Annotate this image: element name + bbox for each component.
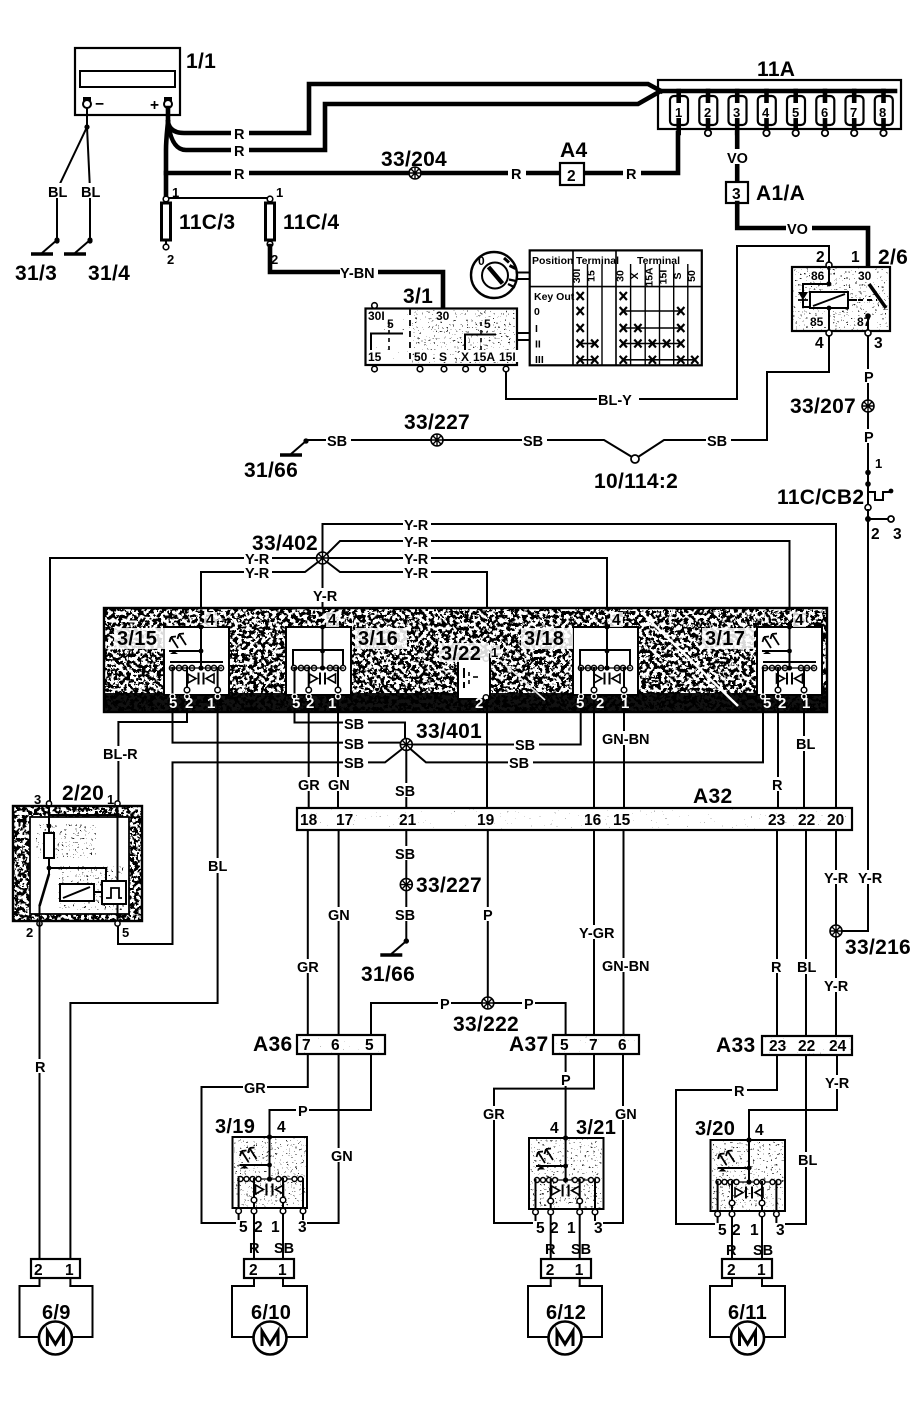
- label 3/15: [114, 628, 166, 650]
- svg-text:3/17: 3/17: [705, 628, 745, 650]
- svg-text:R: R: [234, 127, 245, 143]
- splice 33/402: [317, 552, 329, 564]
- svg-text:5: 5: [387, 317, 394, 331]
- svg-text:1: 1: [65, 1262, 74, 1279]
- wire P 33/207 to circuit breaker: [867, 412, 869, 470]
- svg-text:Key Out: Key Out: [534, 291, 575, 303]
- wire label GN: [330, 1148, 355, 1165]
- fuse 4: [758, 91, 776, 136]
- connector of 6/12: [541, 1259, 591, 1286]
- svg-text:Terminal: Terminal: [576, 255, 619, 267]
- wire label GN: [614, 1106, 639, 1123]
- svg-text:GR: GR: [297, 960, 319, 976]
- wire label P: [862, 369, 875, 386]
- wire Y-R A32 pin20 to 33/216: [835, 830, 837, 925]
- wire SB A32 pin21 to ground 31/66: [405, 830, 407, 878]
- svg-text:R: R: [771, 960, 782, 976]
- svg-text:33/204: 33/204: [381, 148, 447, 171]
- wire label SB: [394, 783, 419, 800]
- svg-text:86: 86: [811, 269, 825, 283]
- svg-text:II: II: [535, 339, 541, 351]
- wire label Y-GR: [578, 925, 616, 942]
- wire R 3/17 pin2 to A32 pin23: [777, 712, 779, 808]
- window motor 6/10: [232, 1286, 307, 1355]
- wire label VO: [786, 221, 812, 238]
- wire R 3/20 pin2 to 6/11: [731, 1217, 733, 1259]
- svg-text:1: 1: [575, 1262, 584, 1279]
- wire label SB: [706, 433, 731, 450]
- label 3/22: [439, 643, 489, 665]
- svg-text:I: I: [535, 323, 538, 335]
- svg-text:5: 5: [365, 1037, 374, 1054]
- svg-text:SB: SB: [274, 1241, 294, 1257]
- svg-text:R: R: [511, 167, 522, 183]
- svg-text:2: 2: [185, 695, 193, 712]
- svg-text:SB: SB: [344, 717, 364, 733]
- svg-text:5: 5: [122, 925, 129, 940]
- wire R 3/19 pin2 to 6/10: [253, 1214, 255, 1259]
- svg-text:P: P: [561, 1073, 571, 1089]
- svg-text:SB: SB: [707, 434, 727, 450]
- svg-text:A1/A: A1/A: [756, 182, 805, 205]
- svg-text:Y-R: Y-R: [824, 979, 849, 995]
- wire GN A32 pin17 to A36 pin6: [338, 830, 340, 1035]
- wire VO A1/A to relay 2/6: [737, 203, 868, 266]
- wire battery minus to grounds: [48, 108, 103, 240]
- svg-text:R: R: [626, 167, 637, 183]
- svg-text:1: 1: [567, 1220, 576, 1237]
- wire SB 33/401 to 3/17 pin5: [411, 712, 764, 762]
- svg-text:5: 5: [292, 695, 300, 712]
- svg-text:33/216: 33/216: [845, 936, 911, 959]
- wire label GN-BN: [601, 958, 650, 975]
- svg-text:30: 30: [858, 269, 872, 283]
- svg-text:5: 5: [763, 695, 771, 712]
- svg-text:4: 4: [795, 612, 804, 629]
- svg-text:3/15: 3/15: [117, 628, 157, 650]
- svg-text:Y-R: Y-R: [825, 1076, 850, 1092]
- wire label BL: [795, 736, 818, 753]
- pin label 4 of 3/15: [204, 612, 217, 629]
- wire label Y-R: [824, 1075, 851, 1092]
- svg-text:SB: SB: [571, 1242, 591, 1258]
- svg-text:P: P: [524, 997, 534, 1013]
- splice 33/222: [482, 997, 494, 1009]
- svg-text:R: R: [545, 1242, 556, 1258]
- svg-text:7: 7: [850, 105, 857, 120]
- svg-text:7: 7: [589, 1037, 598, 1054]
- svg-text:GN: GN: [615, 1107, 637, 1123]
- wire label SB: [522, 433, 547, 450]
- master switch 2/20: [13, 801, 142, 926]
- fuse 2: [699, 91, 717, 136]
- wire SB 3/16 pin5 to 33/401: [295, 712, 406, 739]
- svg-text:6/9: 6/9: [42, 1302, 71, 1324]
- svg-text:1: 1: [750, 1222, 759, 1239]
- svg-text:SB: SB: [395, 908, 415, 924]
- svg-text:GN: GN: [331, 1149, 353, 1165]
- svg-text:15I: 15I: [499, 350, 516, 364]
- fuse 7: [846, 91, 864, 136]
- wire label Y-R: [312, 588, 340, 605]
- wire Y-R 33/402 left to 2/20 pin3: [50, 558, 317, 806]
- svg-text:Y-R: Y-R: [404, 566, 429, 582]
- svg-text:2: 2: [816, 249, 825, 266]
- svg-text:X: X: [461, 350, 469, 364]
- wire Y-R 33/402 to 3/22 pin1: [327, 562, 487, 654]
- svg-text:4: 4: [815, 335, 824, 352]
- fuse 3: [729, 91, 747, 133]
- svg-text:GR: GR: [244, 1081, 266, 1097]
- splice 33/227 lower: [400, 879, 412, 891]
- electronic module 3/22: [458, 656, 490, 701]
- svg-text:3/22: 3/22: [441, 643, 481, 665]
- svg-text:2: 2: [306, 695, 314, 712]
- svg-text:P: P: [298, 1104, 308, 1120]
- wire label P: [522, 996, 535, 1013]
- wire label Y-R right vertical above A32: [823, 870, 850, 887]
- wire Y-GR 3/18 pin2 to A32 pin16: [593, 712, 595, 808]
- fuse 1: [670, 91, 688, 133]
- svg-text:BL-R: BL-R: [103, 747, 138, 763]
- svg-text:R: R: [726, 1243, 737, 1259]
- svg-text:3: 3: [594, 1220, 603, 1237]
- pin label 4 of 3/18: [610, 612, 623, 629]
- wire GR A32 pin18 to A36 pin7: [307, 830, 309, 1035]
- wire label P: [438, 996, 451, 1013]
- svg-text:A33: A33: [716, 1034, 755, 1057]
- svg-text:2: 2: [778, 695, 786, 712]
- svg-text:SB: SB: [327, 434, 347, 450]
- splice 33/204: [409, 167, 421, 179]
- wire GR 3/16 pin2 to A32 pin18: [308, 712, 310, 808]
- svg-text:11A: 11A: [757, 58, 795, 81]
- wire R A33 pin23 to 3/20 pin5: [676, 1055, 777, 1224]
- svg-text:1: 1: [875, 456, 882, 471]
- window motor 6/9: [20, 1286, 93, 1355]
- wire Y-R breaker pin2 down to 33/216: [842, 522, 868, 931]
- svg-text:20: 20: [827, 812, 844, 829]
- svg-text:R: R: [234, 144, 245, 160]
- svg-text:P: P: [483, 908, 493, 924]
- wire label GN-BN: [601, 731, 650, 748]
- svg-text:15: 15: [368, 350, 382, 364]
- svg-text:31/66: 31/66: [244, 459, 298, 482]
- wire label R: [231, 126, 249, 143]
- svg-text:GR: GR: [483, 1107, 505, 1123]
- svg-text:R: R: [772, 778, 783, 794]
- svg-text:SB: SB: [753, 1243, 773, 1259]
- fuse 5: [787, 91, 805, 136]
- wire label SB: [343, 736, 368, 753]
- window switch 3/19: [233, 1134, 308, 1213]
- svg-text:5: 5: [536, 1220, 545, 1237]
- svg-text:III: III: [535, 354, 544, 366]
- wire label BL: [797, 1152, 820, 1169]
- svg-text:85: 85: [810, 315, 824, 329]
- svg-text:A32: A32: [693, 785, 732, 808]
- ground 31/4: [64, 237, 93, 254]
- ground 31/66 upper: [280, 438, 309, 455]
- wire label BL: [207, 858, 230, 875]
- svg-text:3: 3: [874, 335, 883, 352]
- svg-text:2: 2: [567, 168, 576, 185]
- svg-text:GN: GN: [328, 778, 350, 794]
- svg-text:GR: GR: [298, 778, 320, 794]
- wire R to 33/204 and A4: [166, 133, 678, 173]
- svg-text:VO: VO: [727, 151, 748, 167]
- svg-text:S: S: [439, 350, 447, 364]
- svg-text:2: 2: [596, 695, 604, 712]
- wire label SB: [326, 433, 351, 450]
- svg-text:1/1: 1/1: [186, 50, 216, 73]
- svg-text:BL: BL: [81, 185, 100, 201]
- pin labels 5 2 1 3 of 3/20: [715, 1222, 785, 1239]
- svg-text:1: 1: [491, 645, 498, 660]
- wire BL-R 3/15 pin2 to 2/20 pin1: [118, 712, 187, 806]
- svg-text:4: 4: [550, 1120, 559, 1137]
- window motor 6/12: [528, 1286, 602, 1355]
- svg-text:3: 3: [732, 186, 741, 203]
- svg-text:16: 16: [584, 812, 602, 829]
- svg-text:30: 30: [436, 309, 450, 323]
- wire label BL-R: [102, 746, 138, 763]
- svg-text:BL: BL: [797, 960, 816, 976]
- svg-text:GN: GN: [328, 908, 350, 924]
- svg-text:GN-BN: GN-BN: [602, 959, 650, 975]
- svg-text:X: X: [629, 272, 641, 279]
- svg-text:1: 1: [276, 185, 283, 200]
- svg-text:BL: BL: [796, 737, 815, 753]
- svg-text:Y-R: Y-R: [858, 871, 883, 887]
- wire label R: [770, 777, 785, 794]
- wire label Y-R: [403, 551, 431, 568]
- window switch 3/16: [286, 625, 351, 712]
- svg-text:24: 24: [829, 1038, 847, 1055]
- svg-text:R: R: [734, 1084, 745, 1100]
- wire BL 3/15 pin1 to 6/9 pin1: [70, 712, 217, 1260]
- svg-text:7: 7: [302, 1037, 311, 1054]
- svg-text:30I: 30I: [368, 309, 385, 323]
- svg-text:BL: BL: [798, 1153, 817, 1169]
- svg-text:3: 3: [298, 1219, 307, 1236]
- wire label SB: [394, 846, 419, 863]
- fuse 11C/4: [266, 196, 275, 247]
- svg-text:3: 3: [776, 1222, 785, 1239]
- svg-text:6: 6: [821, 105, 828, 120]
- svg-text:3/20: 3/20: [695, 1118, 735, 1140]
- svg-text:2: 2: [34, 1262, 43, 1279]
- wire Y-R 33/402 up branch to right side: [323, 524, 837, 811]
- wire Y-GR A32 pin16 to A37 pin7: [593, 830, 595, 1035]
- wire R 3/21 pin2 to 6/12: [550, 1215, 552, 1259]
- svg-text:P: P: [864, 430, 874, 446]
- svg-text:S: S: [672, 272, 684, 279]
- svg-text:30: 30: [614, 270, 626, 282]
- svg-text:BL-Y: BL-Y: [598, 393, 632, 409]
- svg-text:4: 4: [762, 105, 770, 120]
- splice 33/207: [862, 400, 874, 412]
- window switch 3/18: [573, 625, 638, 712]
- wire P relay 87 to 33/207: [867, 336, 869, 400]
- wire Y-R 33/402 to 3/17 pin4: [327, 541, 790, 627]
- wire GR A37 pin7 to 3/21 pin5: [494, 1054, 594, 1223]
- svg-text:31/3: 31/3: [15, 262, 57, 285]
- wire P A36 pin5 to 3/19 pin4: [270, 1054, 372, 1137]
- svg-text:2: 2: [727, 1262, 736, 1279]
- svg-text:5: 5: [792, 105, 799, 120]
- svg-text:11C/CB2: 11C/CB2: [777, 486, 864, 509]
- fuse 8: [875, 91, 893, 136]
- wire label SB: [394, 907, 419, 924]
- svg-text:19: 19: [477, 812, 495, 829]
- connector strip A32: [297, 808, 852, 830]
- svg-text:VO: VO: [787, 222, 808, 238]
- svg-text:15I: 15I: [658, 270, 670, 285]
- wire label Y-R: [823, 978, 850, 995]
- wire label Y-R: [403, 517, 431, 534]
- svg-text:3/21: 3/21: [576, 1117, 616, 1139]
- wire label Y-R: [857, 870, 883, 887]
- svg-text:Y-GR: Y-GR: [579, 926, 615, 942]
- svg-text:5: 5: [169, 695, 177, 712]
- svg-text:5: 5: [576, 695, 584, 712]
- svg-text:+: +: [150, 97, 159, 114]
- wire GN A36 pin6 to 3/19 pin3: [303, 1054, 339, 1223]
- splice 33/227 upper: [431, 434, 443, 446]
- svg-text:R: R: [234, 167, 245, 183]
- svg-text:SB: SB: [344, 737, 364, 753]
- wire GN A37 pin6 to 3/21 pin3: [595, 1054, 623, 1223]
- label 3/17: [702, 628, 754, 650]
- svg-text:50: 50: [414, 350, 428, 364]
- wire SB 33/401 down to A32 pin21: [405, 750, 407, 808]
- svg-text:P: P: [864, 370, 874, 386]
- svg-text:5: 5: [560, 1037, 569, 1054]
- wire SB 3/19 pin1 to 6/10: [282, 1214, 284, 1259]
- svg-text:2/6: 2/6: [878, 246, 908, 269]
- wire SB 3/20 pin1 to 6/11: [761, 1217, 763, 1259]
- svg-text:2: 2: [254, 1219, 263, 1236]
- wire BL A33 pin22 to 3/20 pin3: [776, 1055, 806, 1224]
- wire P 3/22 pin2 to A32 pin19: [486, 700, 488, 808]
- wire label R: [508, 166, 526, 183]
- svg-text:15A: 15A: [473, 350, 495, 364]
- pin label 4 of 3/16: [326, 612, 339, 629]
- ignition position table: [530, 250, 702, 366]
- svg-text:4: 4: [328, 612, 337, 629]
- wire label SB: [343, 716, 368, 733]
- svg-text:4: 4: [206, 612, 215, 629]
- wire R battery plus upper to 11A bus: [168, 84, 661, 133]
- wire Y-R 33/402 to 3/18 pin4: [329, 558, 608, 627]
- svg-text:6/10: 6/10: [251, 1302, 291, 1324]
- svg-text:SB: SB: [395, 847, 415, 863]
- svg-text:2: 2: [26, 925, 33, 940]
- wire Y-BN 11C/4 to ignition switch 3/1: [270, 246, 443, 308]
- wire label Y-R: [823, 870, 850, 887]
- pin labels 5 2 1 3 of 3/21: [533, 1220, 603, 1237]
- svg-text:22: 22: [798, 812, 815, 829]
- svg-text:R: R: [35, 1060, 46, 1076]
- splice 33/216: [830, 925, 842, 937]
- svg-text:2: 2: [167, 252, 174, 267]
- svg-text:1: 1: [621, 695, 629, 712]
- window switch 3/17: [757, 625, 822, 712]
- wire label SB: [343, 755, 368, 772]
- wire label R: [769, 959, 784, 976]
- svg-text:11C/4: 11C/4: [283, 211, 339, 234]
- svg-text:3/1: 3/1: [403, 285, 433, 308]
- wire GR A36 pin7 to 3/19 pin5: [202, 1054, 308, 1223]
- svg-text:4: 4: [277, 1119, 286, 1136]
- wire label BL: [796, 959, 819, 976]
- svg-text:Y-R: Y-R: [404, 518, 429, 534]
- window switch 3/15: [164, 625, 229, 712]
- wire pin1 link 11C/3 to 11C/4: [166, 198, 270, 202]
- svg-text:2/20: 2/20: [62, 782, 104, 805]
- ignition switch 3/1: [366, 303, 521, 372]
- wire label SB: [508, 755, 533, 772]
- wire BL A32 pin22 to A33 pin22: [805, 830, 807, 1036]
- wire Y-R A33 pin24 to 3/20 pin4: [749, 1055, 837, 1140]
- svg-text:10/114:2: 10/114:2: [594, 470, 678, 493]
- svg-text:SB: SB: [395, 784, 415, 800]
- svg-text:2: 2: [475, 695, 483, 712]
- label 3/16: [355, 628, 407, 650]
- wire label GR: [297, 777, 321, 794]
- wire label VO: [727, 149, 752, 167]
- connector 3 A1/A: [726, 182, 748, 203]
- connector strip A36: [297, 1035, 385, 1054]
- wire label GN: [327, 777, 352, 794]
- svg-text:GN-BN: GN-BN: [602, 732, 650, 748]
- svg-text:15: 15: [586, 270, 598, 282]
- wire label Y-R: [403, 534, 431, 551]
- wire R 2/20 pin2 to 6/9 pin2: [39, 921, 41, 1260]
- svg-text:1: 1: [271, 1219, 280, 1236]
- svg-text:31/4: 31/4: [88, 262, 130, 285]
- connector strip A37: [553, 1035, 639, 1054]
- svg-text:3: 3: [733, 105, 740, 120]
- wire GN 3/16 pin1 to A32 pin17: [337, 712, 339, 808]
- wire SB 33/227 to ground: [405, 891, 407, 941]
- svg-text:6: 6: [618, 1037, 627, 1054]
- wire SB 33/401 to 2/20 pin5: [118, 749, 402, 944]
- svg-text:1: 1: [107, 792, 114, 807]
- svg-text:33/227: 33/227: [404, 411, 470, 434]
- fuse 11C/3: [162, 196, 171, 250]
- svg-text:17: 17: [336, 812, 353, 829]
- wire SB 33/401 to 3/18 pin5: [413, 712, 581, 745]
- svg-text:33/207: 33/207: [790, 395, 856, 418]
- svg-text:15: 15: [613, 812, 631, 829]
- svg-text:Position: Position: [532, 255, 573, 267]
- svg-text:4: 4: [612, 612, 621, 629]
- wire label R: [32, 1059, 47, 1076]
- connector strip A33: [762, 1036, 852, 1055]
- svg-text:Terminal: Terminal: [637, 255, 680, 267]
- fuse box 11A: [658, 80, 901, 129]
- bus bar in 11A: [660, 89, 895, 94]
- svg-text:A37: A37: [509, 1033, 548, 1056]
- switch panel background: [104, 608, 827, 712]
- svg-text:22: 22: [798, 1038, 815, 1055]
- window switch 3/20: [711, 1137, 786, 1216]
- svg-text:1: 1: [757, 1262, 766, 1279]
- wire label P: [481, 907, 494, 924]
- svg-text:−: −: [95, 96, 104, 113]
